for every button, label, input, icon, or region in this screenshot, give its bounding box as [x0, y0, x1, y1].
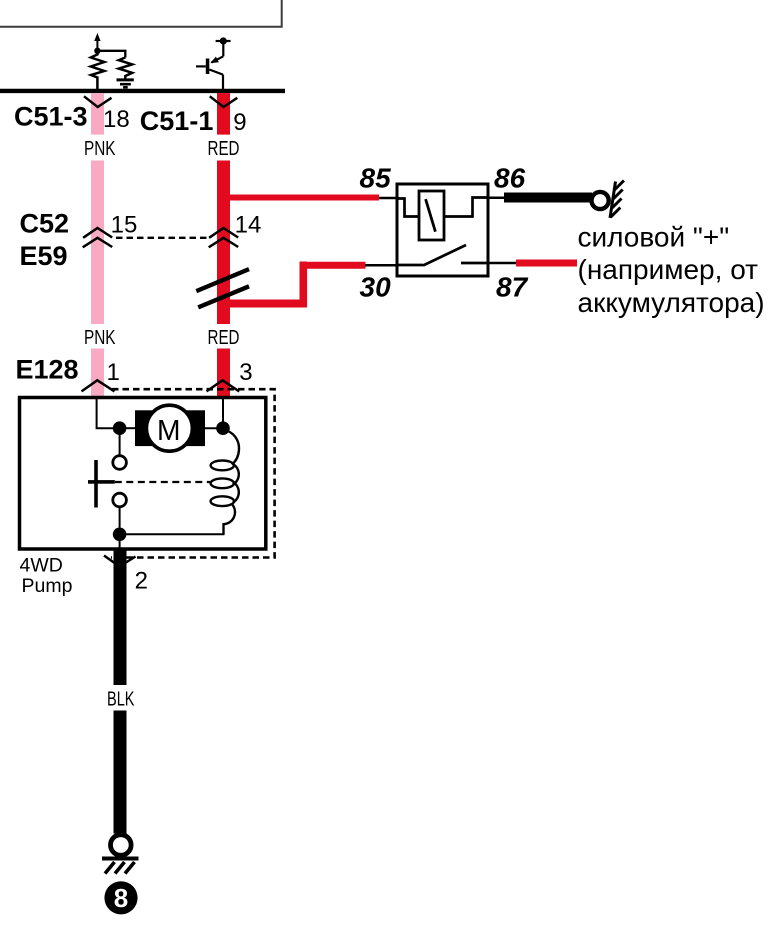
value label RED (lower)	[208, 327, 240, 349]
svg-text:85: 85	[360, 163, 392, 194]
node (bottom junction)	[113, 528, 127, 542]
svg-text:30: 30	[360, 272, 392, 303]
wire (red branch to relay pin 85)	[224, 195, 398, 202]
pin 14	[235, 211, 262, 238]
svg-text:RED: RED	[208, 138, 240, 160]
pin 86 label	[494, 163, 526, 194]
wire PNK segment 1	[91, 93, 104, 135]
connector C52/E59 label	[20, 209, 70, 272]
node (motor left junction)	[113, 421, 127, 435]
connector C52 chevrons (pink wire)	[83, 228, 113, 247]
wire RED segment 3	[217, 349, 230, 399]
svg-text:87: 87	[496, 272, 529, 303]
svg-text:аккумулятора): аккумулятора)	[578, 287, 765, 318]
svg-text:14: 14	[235, 211, 262, 238]
connector E128 chevron (pink wire)	[82, 380, 115, 391]
wire RED segment 2	[217, 161, 230, 325]
svg-text:силовой "+": силовой "+"	[578, 221, 730, 252]
svg-text:Pump: Pump	[22, 575, 73, 597]
label 4WD Pump	[20, 555, 73, 598]
svg-text:86: 86	[494, 163, 526, 194]
resistor R2	[119, 58, 133, 79]
connector C51-1 label	[140, 106, 214, 136]
wire (dashed enclosure around pump)	[111, 389, 275, 557]
svg-text:C51-1: C51-1	[140, 106, 214, 136]
node (motor right junction)	[216, 421, 230, 435]
bus wire (horizontal)	[0, 89, 285, 93]
splice slash marks	[196, 269, 249, 307]
svg-text:PNK: PNK	[84, 138, 116, 160]
pin 2 label	[135, 568, 148, 595]
value label PNK (top)	[84, 138, 116, 160]
node (Q1 top dot)	[210, 37, 227, 63]
wire (junction to R2)	[97, 51, 125, 58]
pin 87 label	[496, 272, 529, 303]
value label PNK (lower)	[84, 327, 116, 349]
wire (bottom inside box)	[120, 534, 225, 549]
wire (red step to relay pin 30)	[224, 262, 398, 308]
svg-text:3: 3	[239, 359, 252, 386]
wire (relay internal coil to pin 86)	[444, 198, 488, 217]
pin 15	[111, 211, 138, 238]
pin 1	[107, 359, 120, 386]
value label RED (top)	[208, 138, 240, 160]
arrow (internal node, pink circuit)	[94, 33, 100, 51]
connector C51-3 chevron	[84, 96, 112, 107]
svg-text:C52: C52	[20, 209, 70, 239]
resistor R1	[91, 51, 105, 90]
wire (pin 87 stub, red)	[488, 262, 577, 265]
pin 2 chevron	[104, 556, 136, 567]
svg-text:E128: E128	[16, 355, 79, 385]
relay coil box	[419, 191, 444, 240]
ground (under R2)	[117, 80, 134, 87]
wire PNK segment 2	[91, 161, 104, 325]
wire BLK segment 2	[114, 711, 127, 834]
module box (ECU outline top-left)	[0, 0, 282, 27]
svg-text:15: 15	[111, 211, 138, 238]
pin 85 label	[360, 163, 392, 194]
value label BLK	[107, 689, 135, 711]
pump unit box	[20, 398, 266, 550]
connector C51-3 label	[14, 102, 88, 132]
ground G3 (bottom)	[102, 835, 139, 874]
wire BLK segment 1	[114, 548, 127, 685]
pressure switch S1	[113, 428, 127, 527]
transistor Q1	[196, 41, 231, 90]
pin 3	[239, 359, 252, 386]
wire (relay internal pin 85 to coil)	[397, 199, 419, 217]
wire (pink entry inside box)	[97, 398, 120, 428]
ground (relay pin 86)	[592, 181, 624, 219]
motor M1	[120, 405, 223, 451]
pin 9	[233, 109, 246, 136]
connector E128 chevron (red wire)	[207, 380, 240, 391]
switch actuator T-bar	[88, 460, 115, 508]
svg-text:E59: E59	[20, 241, 68, 271]
wire (dashed actuator link)	[115, 481, 210, 483]
relay K1 box	[397, 184, 488, 276]
svg-text:2: 2	[135, 568, 148, 595]
svg-text:(например, от: (например, от	[578, 254, 759, 285]
svg-text:1: 1	[107, 359, 120, 386]
connector C51-1 chevron	[210, 96, 238, 107]
connector C52 chevrons (red wire)	[209, 228, 239, 247]
svg-text:18: 18	[103, 106, 130, 133]
svg-text:8: 8	[114, 883, 128, 913]
wire (pin 86 to ground, black)	[488, 196, 592, 199]
svg-text:BLK: BLK	[107, 689, 135, 711]
wire (dashed connector line C52)	[116, 237, 207, 239]
node 8 (circuit number badge)	[104, 881, 137, 914]
svg-text:9: 9	[233, 109, 246, 136]
wire (red entry inside box)	[222, 398, 224, 428]
svg-text:RED: RED	[208, 327, 240, 349]
coil L1	[211, 430, 239, 535]
svg-text:C51-3: C51-3	[14, 102, 88, 132]
svg-text:PNK: PNK	[84, 327, 116, 349]
wire PNK segment 3	[91, 349, 104, 399]
pin 30 label	[360, 272, 392, 303]
pin 18	[103, 106, 130, 133]
wire RED segment 1	[217, 93, 230, 135]
svg-text:4WD: 4WD	[20, 555, 63, 577]
connector E128 label	[16, 355, 79, 385]
node (R1/R2 junction dot)	[94, 48, 100, 54]
relay switch contact	[397, 245, 488, 266]
svg-text:M: M	[157, 415, 181, 447]
net label: power plus annotation	[578, 221, 765, 318]
